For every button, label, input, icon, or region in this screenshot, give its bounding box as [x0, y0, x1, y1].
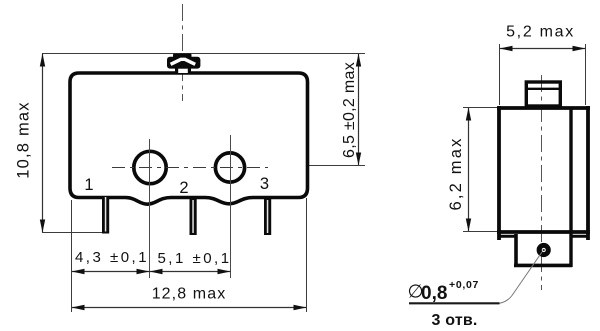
mounting tab left wall [514, 234, 518, 267]
holes horizontal centerline [112, 167, 268, 169]
svg-text:0,8: 0,8 [421, 283, 447, 304]
svg-text:6,5 ±0,2 max: 6,5 ±0,2 max [341, 62, 358, 158]
right lip [571, 235, 588, 238]
dimension 10,8 max line [42, 54, 44, 233]
main body outline [70, 73, 308, 204]
extension line side body top [463, 107, 497, 109]
leader line for hole callout [409, 302, 500, 304]
hole 1 vertical centerline / extension [149, 139, 151, 278]
dimension 6,2 max [468, 108, 470, 232]
top extension line (plunger top level) [42, 53, 365, 55]
dimension line 12,8 max [72, 307, 307, 309]
pin 3 [264, 199, 271, 235]
side body bottom edge [497, 230, 590, 234]
extension line side body bottom [463, 231, 497, 233]
extension line body right (bottom dims) [306, 198, 308, 312]
svg-text:12,8 max: 12,8 max [152, 286, 227, 303]
left lip [499, 235, 516, 238]
side view centerline [541, 75, 543, 290]
pin 2 [190, 199, 197, 235]
svg-text:1: 1 [84, 176, 93, 194]
svg-text:3 отв.: 3 отв. [432, 312, 478, 329]
extension line at hole axis level (right) [309, 165, 365, 167]
extension line side body left edge [499, 44, 501, 105]
extension line body left (bottom dims) [71, 200, 73, 312]
hole 2 (main view) [215, 153, 244, 182]
svg-text:10,8 max: 10,8 max [15, 101, 33, 178]
mounting tab bottom edge [514, 264, 572, 268]
svg-text:4,3 ±0,1: 4,3 ±0,1 [75, 249, 149, 266]
svg-text:2: 2 [179, 179, 188, 197]
svg-text:6,2 max: 6,2 max [447, 136, 465, 210]
pin 1 [102, 196, 109, 234]
mounting hole [539, 245, 548, 254]
svg-text:5,1 ±0,1: 5,1 ±0,1 [157, 250, 231, 267]
svg-text:+0,07: +0,07 [449, 279, 479, 291]
side body right wall [586, 106, 590, 240]
hole 1 (main view) [134, 151, 166, 183]
dimension line 4,3 / 5,1 [72, 271, 231, 273]
extension line side body right edge [585, 44, 587, 105]
inner wall line [569, 107, 572, 268]
side plunger [526, 82, 560, 106]
side body left wall [497, 106, 501, 240]
dimension 6,5 ±0,2 max line [358, 54, 360, 166]
side body top edge [497, 106, 590, 110]
svg-text:3: 3 [260, 175, 269, 193]
bottom-left extension line (pin bottom level) [42, 232, 109, 234]
plunger (main view) [167, 54, 200, 74]
hole 2 vertical centerline / extension [230, 135, 232, 278]
plunger centerline (main view) [182, 4, 184, 101]
svg-text:5,2 max: 5,2 max [506, 24, 575, 41]
